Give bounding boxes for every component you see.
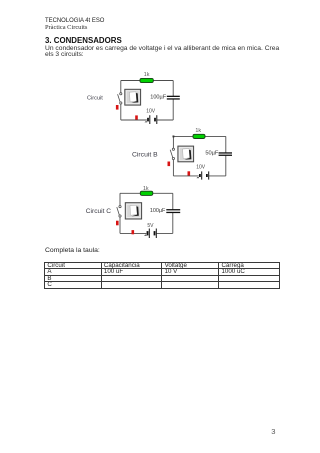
switch body (rocker box) A: [125, 89, 141, 105]
resistor 1k A: [140, 78, 153, 82]
wire top A: [121, 80, 173, 82]
svg-text:10V: 10V: [196, 164, 206, 170]
wire bottom right B: [209, 175, 226, 177]
resistor 1k C: [140, 191, 153, 195]
wire bottom left B: [173, 175, 198, 177]
battery 5V C: [148, 229, 157, 239]
junction knob B top-left: [173, 136, 175, 138]
red probe bottom B: [188, 171, 191, 175]
svg-text:100µF: 100µF: [150, 94, 167, 100]
wire left lower A: [120, 104, 122, 120]
paragraph: [45, 46, 279, 59]
capacitor 100&#181;F A: [167, 96, 180, 97]
svg-text:100µF: 100µF: [150, 208, 166, 214]
battery current arrow B: [196, 177, 199, 178]
switch lever A: [118, 94, 121, 102]
wire left lower C: [119, 217, 121, 233]
wire left upper C: [119, 193, 121, 205]
wire top B: [173, 135, 225, 137]
wire bottom left A: [121, 119, 147, 121]
wire bottom right C: [157, 232, 173, 234]
table intro: [45, 247, 100, 254]
header line 1: [45, 18, 104, 24]
svg-text:Circuit B: Circuit B: [132, 151, 158, 158]
red probe bottom A: [135, 115, 138, 119]
data table: [44, 262, 280, 289]
svg-text:1k: 1k: [195, 128, 201, 134]
wire left upper B: [172, 136, 174, 148]
svg-text:Circuit C: Circuit C: [86, 208, 112, 215]
svg-text:1k: 1k: [144, 72, 150, 78]
wire right lower C: [172, 212, 174, 233]
wire left lower B: [172, 160, 174, 176]
switch contacts B: [172, 148, 174, 150]
wire left upper A: [120, 81, 122, 93]
wire right upper B: [225, 136, 227, 153]
wire right upper A: [172, 81, 174, 97]
section title: [45, 36, 122, 45]
capacitor 100&#181;F C: [166, 209, 180, 210]
wire right lower A: [172, 99, 174, 120]
switch lever C: [117, 207, 120, 215]
wire right upper C: [172, 193, 174, 209]
wire top C: [120, 192, 173, 194]
switch contacts C: [119, 206, 121, 208]
battery 10V A: [148, 115, 157, 124]
switch body (rocker box) C: [125, 203, 141, 219]
wire right lower B: [225, 155, 227, 176]
svg-text:50µF: 50µF: [205, 150, 219, 156]
svg-text:10V: 10V: [146, 109, 156, 115]
battery current arrow A: [145, 121, 148, 122]
page number: [271, 427, 275, 436]
svg-text:Circuit: Circuit: [87, 95, 103, 101]
switch body (rocker box) B: [178, 146, 194, 162]
red probe left C: [116, 221, 119, 226]
red probe left A: [116, 105, 119, 110]
wire bottom left C: [120, 232, 146, 234]
red probe bottom C: [132, 230, 135, 234]
resistor 1k B: [193, 134, 205, 138]
switch contacts A: [120, 93, 122, 95]
battery 10V B: [200, 171, 209, 179]
red probe left B: [168, 162, 171, 167]
switch lever B: [170, 150, 173, 158]
header line 2: [45, 24, 87, 31]
svg-text:1k: 1k: [143, 186, 149, 192]
svg-text:5V: 5V: [147, 223, 154, 229]
battery current arrow C: [144, 235, 147, 236]
capacitor 50&#181;F B: [219, 152, 232, 153]
wire bottom right A: [157, 119, 173, 121]
